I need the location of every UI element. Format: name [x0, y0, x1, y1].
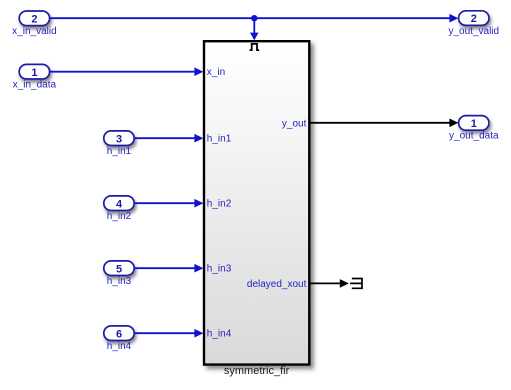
wire h_in1 — [134, 134, 203, 143]
wire y_out to y_out_data — [311, 119, 459, 128]
svg-text:4: 4 — [116, 198, 123, 210]
svg-text:6: 6 — [116, 328, 122, 340]
svg-text:5: 5 — [116, 263, 122, 275]
wire delayed_xout to terminator — [311, 279, 349, 288]
inport 6 h_in4 — [104, 326, 134, 341]
svg-text:h_in2: h_in2 — [107, 211, 132, 222]
svg-text:3: 3 — [116, 133, 122, 145]
outport 1 y_out_data — [459, 116, 489, 131]
svg-text:y_out_valid: y_out_valid — [449, 26, 500, 37]
svg-text:h_in3: h_in3 — [207, 264, 232, 275]
svg-text:h_in4: h_in4 — [107, 341, 132, 352]
wire branch to trigger input — [250, 18, 259, 40]
terminator symbol — [350, 279, 362, 289]
svg-text:h_in2: h_in2 — [207, 199, 232, 210]
svg-text:2: 2 — [31, 13, 37, 25]
svg-text:x_in_valid: x_in_valid — [12, 26, 56, 37]
svg-text:symmetric_fir: symmetric_fir — [224, 365, 290, 377]
inport 3 h_in1 — [104, 131, 134, 146]
wire x_in_data to x_in — [50, 67, 204, 76]
wire h_in2 — [134, 199, 203, 208]
svg-text:h_in4: h_in4 — [207, 329, 232, 340]
junction on valid wire — [251, 15, 257, 21]
svg-text:delayed_xout: delayed_xout — [247, 279, 307, 290]
inport 4 h_in2 — [104, 196, 134, 211]
subsystem block symmetric_fir — [204, 41, 309, 364]
svg-text:1: 1 — [471, 118, 477, 130]
svg-text:h_in1: h_in1 — [207, 134, 232, 145]
trigger pulse symbol on subsystem — [250, 44, 260, 50]
wire h_in4 — [134, 329, 203, 338]
svg-text:x_in: x_in — [207, 67, 225, 78]
svg-text:2: 2 — [471, 13, 477, 25]
inport 5 h_in3 — [104, 261, 134, 276]
svg-text:x_in_data: x_in_data — [13, 79, 57, 90]
svg-text:1: 1 — [31, 67, 37, 79]
svg-text:h_in1: h_in1 — [107, 146, 132, 157]
wire h_in3 — [134, 264, 203, 273]
svg-text:h_in3: h_in3 — [107, 276, 132, 287]
inport 2 x_in_valid — [19, 11, 49, 26]
wire x_in_valid to y_out_valid — [50, 14, 459, 23]
svg-text:y_out_data: y_out_data — [449, 131, 499, 142]
inport 1 x_in_data — [19, 64, 49, 79]
svg-text:y_out: y_out — [282, 118, 307, 129]
outport 2 y_out_valid — [459, 11, 489, 26]
